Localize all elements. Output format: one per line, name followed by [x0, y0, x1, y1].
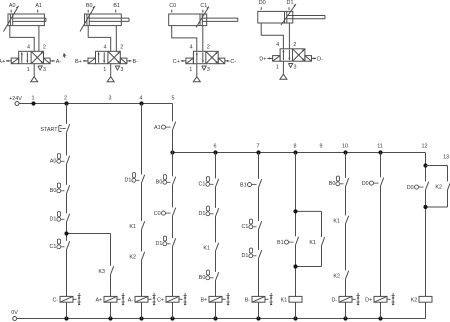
contact D0 (rung 11) — [362, 178, 384, 187]
solenoid C+ — [173, 58, 194, 65]
contact K1 (rung 4) — [129, 221, 144, 230]
svg-text:4: 4 — [27, 44, 30, 50]
svg-text:3: 3 — [43, 67, 46, 73]
latch branch col13-col12 bottom — [423, 205, 447, 209]
air supply (valve VC) — [193, 64, 200, 82]
wire rung 10 — [345, 153, 347, 297]
svg-text:2: 2 — [64, 95, 67, 101]
wire rung 6 — [215, 153, 217, 297]
svg-text:K2: K2 — [411, 298, 418, 304]
contact B0 (rung 10) — [329, 176, 349, 187]
svg-text:B-: B- — [133, 59, 139, 65]
node 2 — [64, 95, 69, 105]
0V node col5 — [170, 316, 174, 320]
svg-text:12: 12 — [422, 143, 428, 149]
svg-text:0V: 0V — [11, 310, 18, 316]
svg-text:9: 9 — [320, 143, 323, 149]
contact C1 (rung 2) — [49, 239, 69, 250]
svg-text:C+: C+ — [173, 59, 180, 65]
svg-text:D-: D- — [317, 57, 323, 63]
+24V supply — [9, 96, 22, 105]
wire rung 7 — [258, 153, 260, 297]
valve VA port labels 4/2 — [27, 44, 46, 50]
svg-text:D+: D+ — [365, 298, 372, 304]
svg-text:10: 10 — [342, 143, 348, 149]
svg-text:4: 4 — [190, 44, 193, 50]
sensor C0 — [169, 3, 176, 13]
contact K1 (rung 10) — [333, 216, 348, 225]
svg-text:1: 1 — [189, 67, 192, 73]
svg-text:C0: C0 — [154, 211, 161, 217]
0V node col11 — [378, 316, 382, 320]
svg-text:B1: B1 — [277, 240, 284, 246]
svg-text:A-: A- — [128, 298, 134, 304]
valve VA straight-flow position — [21, 52, 29, 62]
exhaust (valve VB) — [115, 66, 119, 70]
svg-text:K1: K1 — [281, 298, 288, 304]
svg-text:13: 13 — [443, 154, 449, 160]
svg-text:B1: B1 — [113, 3, 120, 9]
valve VD crossed-flow position — [293, 49, 304, 60]
svg-text:3: 3 — [294, 65, 297, 71]
node 6 — [213, 143, 217, 154]
latch branch col8-col9 bottom — [293, 264, 321, 268]
svg-text:3: 3 — [120, 67, 123, 73]
valve VC port labels 4/2 — [190, 44, 210, 50]
wire rung 7 lower — [258, 302, 260, 318]
wire rung 8 — [295, 153, 297, 297]
svg-text:D1: D1 — [124, 178, 131, 184]
svg-text:D-: D- — [331, 298, 337, 304]
solenoid B- — [120, 58, 138, 65]
sensor B0 — [86, 3, 93, 13]
svg-text:3: 3 — [207, 67, 210, 73]
svg-text:C-: C- — [52, 298, 58, 304]
sensor D1 — [287, 0, 294, 10]
svg-text:A+: A+ — [0, 59, 5, 65]
cylinder B — [85, 14, 130, 26]
svg-text:K2: K2 — [435, 185, 442, 191]
svg-text:D+: D+ — [259, 57, 266, 63]
valve VC crossed-flow position — [206, 52, 217, 63]
wire rung 3 — [110, 234, 112, 297]
solenoid B+ — [75, 58, 95, 65]
solenoid D+ — [259, 56, 280, 63]
cushioning arrow (cylinder C) — [196, 7, 209, 28]
svg-text:A-: A- — [56, 59, 62, 65]
solenoid D- — [305, 56, 323, 63]
label 13 — [443, 154, 449, 160]
svg-text:B0: B0 — [329, 181, 336, 187]
node 8 — [293, 143, 297, 154]
0V node col10 — [343, 316, 347, 320]
wire rung 8 lower — [295, 302, 297, 318]
branch rail 6-12 — [173, 152, 426, 154]
svg-text:B0: B0 — [50, 188, 57, 194]
pipe B cap-side — [88, 26, 111, 52]
wire rung 11 lower — [380, 302, 382, 318]
0V node col2 — [64, 316, 68, 320]
node 10 — [342, 143, 348, 154]
svg-text:7: 7 — [257, 143, 260, 149]
svg-text:D1: D1 — [241, 253, 248, 259]
svg-text:K3: K3 — [98, 269, 105, 275]
valve VB port labels 1/3 — [103, 67, 123, 73]
air supply (valve VA) — [31, 64, 38, 82]
svg-text:C1: C1 — [198, 182, 205, 188]
svg-text:B0: B0 — [86, 3, 93, 9]
contact B1 (rung 7) — [240, 179, 262, 188]
svg-text:11: 11 — [377, 143, 383, 149]
svg-text:4: 4 — [140, 95, 143, 101]
wire rung 12 — [425, 153, 427, 297]
wire rung 2 lower — [66, 302, 68, 318]
pipe A rod-side — [38, 26, 40, 52]
svg-text:B0: B0 — [156, 180, 163, 186]
solenoid coil C+ — [157, 293, 187, 305]
relay coil K1 — [281, 296, 302, 303]
valve VB port labels 4/2 — [104, 44, 124, 50]
air supply (valve VB) — [107, 64, 114, 82]
contact B0 (rung 6) — [199, 270, 219, 281]
svg-text:B1: B1 — [240, 182, 247, 188]
svg-text:+24V: +24V — [9, 96, 22, 102]
cushioning arrow (cylinder A) — [4, 6, 19, 32]
svg-text:K1: K1 — [203, 246, 210, 252]
svg-text:6: 6 — [214, 143, 217, 149]
valve VC body — [193, 51, 218, 63]
cushioning arrow (cylinder B) — [80, 6, 95, 32]
valve VA port labels 1/3 — [27, 67, 46, 73]
branch col2-col3 — [64, 231, 110, 235]
valve VC straight-flow position — [196, 52, 204, 62]
valve VD body — [280, 49, 305, 61]
sensor D0 — [259, 0, 266, 10]
solenoid coil D- — [331, 293, 359, 305]
svg-text:D0: D0 — [362, 181, 369, 187]
contact K1 (rung 9) — [309, 237, 324, 246]
exhaust (valve VC) — [202, 66, 206, 70]
cushioning arrow (cylinder D) — [281, 4, 296, 25]
svg-text:1: 1 — [27, 67, 30, 73]
solenoid coil C- — [52, 293, 80, 305]
sensor A1 — [35, 3, 42, 13]
node 7 — [256, 143, 260, 154]
0V rail — [17, 318, 426, 320]
svg-text:2: 2 — [293, 42, 296, 48]
0V supply — [11, 310, 18, 321]
wire rung 13 — [447, 166, 449, 208]
svg-text:A0: A0 — [50, 159, 57, 165]
svg-text:D1: D1 — [198, 211, 205, 217]
sensor B1 — [113, 3, 120, 13]
svg-text:K1: K1 — [309, 240, 316, 246]
svg-text:C1: C1 — [241, 224, 248, 230]
svg-text:8: 8 — [294, 143, 297, 149]
0V node col8 — [293, 316, 297, 320]
wire rung 10 lower — [345, 302, 347, 318]
svg-text:2: 2 — [43, 44, 46, 50]
svg-text:5: 5 — [172, 95, 175, 101]
wire rung 5 — [172, 104, 174, 297]
svg-text:D1: D1 — [49, 217, 56, 223]
node 4 — [139, 95, 143, 105]
exhaust (valve VA) — [38, 66, 42, 70]
wire rung 6 lower — [215, 302, 217, 318]
contact D1 (rung 4) — [124, 173, 144, 184]
wire rung 11 — [380, 153, 382, 297]
svg-text:C0: C0 — [169, 3, 176, 9]
wire rung 12 lower — [425, 302, 427, 318]
contact D1 (rung 6) — [198, 206, 218, 217]
solenoid coil A- — [128, 293, 156, 305]
wire rung 2 — [66, 104, 68, 297]
svg-text:D1: D1 — [155, 241, 162, 247]
sensor A0 — [9, 3, 16, 13]
label 5 — [172, 95, 175, 101]
svg-text:1: 1 — [103, 67, 106, 73]
contact A0 (rung 2) — [50, 154, 70, 165]
svg-text:START: START — [40, 127, 58, 133]
solenoid coil B+ — [200, 293, 229, 305]
svg-text:C1: C1 — [200, 3, 207, 9]
cylinder C — [169, 14, 238, 26]
0V node col6 — [213, 316, 217, 320]
contact D0 (rung 12) — [407, 182, 429, 191]
pipe C rod-side — [202, 26, 204, 52]
valve VA body — [19, 51, 44, 63]
contact C1 (rung 7) — [241, 219, 261, 230]
contact K2 (rung 10) — [333, 271, 348, 280]
pipe C cap-side — [172, 26, 197, 52]
solenoid A- — [44, 58, 62, 65]
pipe A cap-side — [10, 26, 34, 52]
wire rung 4 — [141, 104, 143, 297]
cylinder D — [258, 11, 325, 23]
svg-text:B-: B- — [245, 298, 251, 304]
cylinder A — [8, 14, 46, 26]
0V node col4 — [139, 316, 143, 320]
contact K1 (rung 6) — [203, 243, 218, 252]
label 3 — [109, 95, 112, 101]
svg-text:A+: A+ — [95, 298, 102, 304]
pipe D rod-side — [288, 23, 290, 49]
svg-text:C1: C1 — [49, 244, 56, 250]
relay coil K2 — [411, 296, 432, 303]
svg-text:4: 4 — [276, 42, 279, 48]
pipe B rod-side — [115, 26, 117, 52]
contact START (rung 2) — [40, 124, 69, 133]
wire rung 9 — [321, 211, 323, 266]
valve VA crossed-flow position — [32, 52, 43, 63]
wire rung 5 lower — [172, 302, 174, 318]
svg-text:K2: K2 — [129, 255, 136, 261]
node 1 — [31, 95, 35, 105]
svg-text:D0: D0 — [259, 0, 266, 6]
pipe D cap-side — [261, 23, 283, 49]
svg-text:C+: C+ — [157, 298, 164, 304]
svg-text:1: 1 — [32, 95, 35, 101]
0V node col3 — [108, 316, 112, 320]
solenoid coil A+ — [95, 293, 124, 305]
label 9 — [320, 143, 323, 149]
node 11 — [377, 143, 383, 154]
contact C0 (rung 5) — [154, 208, 176, 217]
wire rung 3 lower — [110, 302, 112, 318]
air supply (valve VD) — [280, 61, 287, 79]
svg-text:1: 1 — [276, 65, 279, 71]
solenoid coil B- — [245, 293, 273, 305]
svg-text:4: 4 — [104, 44, 107, 50]
svg-text:2: 2 — [120, 44, 123, 50]
valve VC port labels 1/3 — [189, 67, 210, 73]
svg-text:K1: K1 — [129, 224, 136, 230]
contact B1 (rung 8) — [277, 237, 299, 246]
svg-text:A1: A1 — [35, 3, 42, 9]
valve VB crossed-flow position — [109, 52, 120, 63]
svg-text:K1: K1 — [333, 219, 340, 225]
solenoid coil D+ — [365, 293, 395, 305]
contact D1 (rung 5) — [155, 236, 175, 247]
svg-text:C-: C- — [230, 59, 236, 65]
valve VB straight-flow position — [98, 52, 106, 62]
svg-text:D0: D0 — [407, 185, 414, 191]
solenoid C- — [218, 58, 236, 65]
contact D1 (rung 7) — [241, 248, 261, 259]
svg-text:A0: A0 — [9, 3, 16, 9]
mouse cursor — [63, 53, 67, 58]
valve VB body — [96, 51, 121, 63]
0V node col7 — [256, 316, 260, 320]
svg-text:3: 3 — [109, 95, 112, 101]
valve VD port labels 4/2 — [276, 42, 296, 48]
contact A1 (rung 5) — [154, 122, 176, 131]
contact K2 (rung 13) — [435, 182, 450, 191]
contact B0 (rung 5) — [156, 175, 176, 186]
latch branch col8-col9 top — [293, 209, 321, 213]
contact C1 (rung 6) — [198, 177, 218, 188]
exhaust (valve VD) — [288, 64, 292, 68]
valve VD straight-flow position — [282, 50, 290, 60]
node 12a — [423, 163, 427, 167]
svg-text:D1: D1 — [287, 0, 294, 6]
solenoid A+ — [0, 58, 19, 65]
valve VD port labels 1/3 — [276, 65, 297, 71]
svg-text:B+: B+ — [75, 59, 82, 65]
svg-text:B0: B0 — [199, 275, 206, 281]
contact D1 (rung 2) — [49, 212, 69, 223]
wire rung 4 lower — [141, 302, 143, 318]
svg-text:A1: A1 — [154, 125, 161, 131]
svg-text:2: 2 — [207, 44, 210, 50]
sensor C1 — [200, 3, 207, 13]
contact K3 (rung 3) — [98, 266, 113, 275]
label 12 — [422, 143, 428, 149]
node 5a — [170, 150, 174, 154]
svg-text:K2: K2 — [333, 274, 340, 280]
svg-text:B+: B+ — [200, 298, 207, 304]
+24V rail — [19, 103, 173, 105]
contact B0 (rung 2) — [50, 183, 70, 194]
latch branch col12-col13 top — [426, 165, 448, 167]
contact K2 (rung 4) — [129, 252, 144, 261]
